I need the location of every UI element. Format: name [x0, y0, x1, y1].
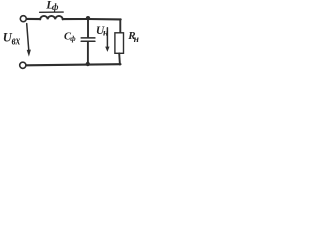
svg-text:вх: вх — [12, 34, 21, 48]
wire top-right — [88, 18, 121, 20]
wire right branch upper — [119, 19, 121, 32]
svg-text:н: н — [134, 35, 139, 45]
resistor Rн — [115, 33, 124, 54]
label Uн — [96, 25, 108, 39]
wire top-middle — [63, 18, 88, 20]
wire bottom — [26, 64, 120, 65]
terminal input bottom — [20, 62, 26, 68]
inductor Lф — [40, 16, 63, 20]
core bar of Lф — [40, 11, 64, 13]
junction node top — [86, 16, 90, 20]
label Cф — [64, 32, 76, 43]
terminal input top — [20, 16, 26, 22]
capacitor Cф — [81, 38, 95, 41]
junction node bottom — [86, 62, 90, 66]
svg-text:ф: ф — [70, 34, 76, 43]
label Rн — [127, 30, 139, 45]
svg-text:н: н — [103, 29, 108, 39]
voltage arrow Uвх — [27, 24, 31, 57]
wire top-left — [27, 18, 41, 20]
wire capacitor upper lead — [87, 19, 89, 37]
label Lф — [45, 0, 59, 12]
wire right branch lower — [118, 53, 121, 64]
svg-text:ф: ф — [52, 2, 59, 12]
wire capacitor lower lead — [87, 42, 89, 64]
label Uвх — [3, 31, 21, 48]
voltage arrow Uн — [105, 28, 109, 52]
